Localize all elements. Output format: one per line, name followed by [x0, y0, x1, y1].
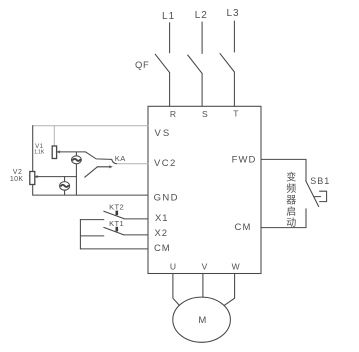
wire CM rail vertical — [79, 220, 81, 249]
wire X1 — [124, 218, 148, 220]
pushbutton SB1 stem — [314, 196, 321, 198]
svg-text:KT2: KT2 — [109, 203, 124, 212]
terminal label GND — [154, 193, 179, 204]
svg-text:FWD: FWD — [232, 155, 257, 166]
terminal label S — [202, 109, 208, 119]
meter circle B2 — [60, 182, 70, 191]
breaker QF pole 2 blade — [188, 55, 202, 73]
time relay contact KT1 delay mark — [116, 227, 119, 232]
breaker QF pole 1 blade — [155, 54, 169, 72]
svg-text:VS: VS — [155, 128, 172, 139]
svg-text:X1: X1 — [155, 213, 168, 224]
motor M — [173, 297, 231, 342]
wire V to motor — [202, 274, 204, 298]
potentiometer V2 label — [13, 169, 23, 176]
wire SB1 to CM — [261, 209, 306, 228]
terminal label VC2 — [154, 158, 177, 169]
time relay contact KT2 delay mark — [116, 211, 119, 216]
wire VS to left rail (faint) — [33, 125, 148, 127]
svg-text:U: U — [170, 262, 176, 272]
wire GND rail — [33, 194, 148, 196]
terminal label V — [202, 262, 208, 272]
terminal label FWD — [232, 155, 257, 166]
wire FWD to SB1 — [261, 159, 306, 180]
wire KA lower branch arrow — [97, 166, 110, 168]
svg-text:S: S — [202, 109, 208, 119]
pushbutton SB1 label — [310, 176, 330, 186]
svg-text:CM: CM — [154, 243, 171, 254]
svg-text:10K: 10K — [10, 176, 24, 183]
svg-text:KT1: KT1 — [109, 219, 124, 228]
time relay contact KT2 label — [109, 203, 124, 212]
wire KT1 left — [80, 235, 103, 237]
potentiometer V1 wiper arrow — [57, 150, 61, 153]
wire KA to VC2 (faint) — [117, 163, 148, 165]
terminal label T — [233, 109, 238, 119]
terminal label X2 — [155, 228, 168, 239]
wire QF pole2 to terminal S — [201, 73, 203, 106]
wire V1 wiper diagonal to KA — [86, 152, 112, 160]
meter circle B1 bottom wire to GND rail — [75, 164, 77, 195]
svg-text:CM: CM — [235, 222, 252, 233]
terminal label CM right — [235, 222, 252, 233]
svg-text:GND: GND — [154, 193, 179, 204]
inverter U1 (VFD) box — [148, 106, 261, 273]
time relay contact KT1 label — [109, 219, 124, 228]
relay contact KA blade — [112, 160, 117, 164]
node L2 — [195, 10, 208, 21]
breaker QF pole 3 blade — [220, 54, 234, 72]
svg-text:KA: KA — [115, 154, 126, 163]
wire L1 to QF — [169, 23, 171, 53]
relay contact KA label — [115, 154, 126, 163]
terminal label X1 — [155, 213, 168, 224]
wire L2 to QF — [201, 22, 203, 54]
svg-text:L1: L1 — [162, 11, 175, 22]
svg-text:V: V — [202, 262, 208, 272]
svg-text:X2: X2 — [155, 228, 168, 239]
terminal label CM left — [154, 243, 171, 254]
wire V1 wiper horizontal — [58, 151, 86, 153]
svg-text:动: 动 — [286, 217, 296, 229]
time relay contact KT2 blade — [104, 211, 124, 218]
wire KT2 left — [80, 219, 103, 221]
svg-text:QF: QF — [135, 60, 149, 71]
potentiometer V1 value 1.1K — [34, 150, 45, 156]
svg-text:M: M — [198, 315, 206, 326]
svg-text:W: W — [232, 262, 240, 272]
svg-text:启: 启 — [286, 205, 296, 218]
terminal label U — [170, 262, 176, 272]
svg-text:T: T — [233, 109, 238, 119]
time relay contact KT1 blade — [104, 227, 124, 235]
terminal label W — [232, 262, 240, 272]
svg-text:变: 变 — [286, 171, 296, 184]
meter circle B1 — [72, 156, 82, 164]
svg-text:1.1K: 1.1K — [34, 150, 45, 156]
svg-text:SB1: SB1 — [310, 176, 330, 186]
svg-text:L2: L2 — [195, 10, 208, 21]
wire V2 wiper to junction — [38, 176, 76, 178]
potentiometer V2 10K body — [30, 172, 35, 185]
wire W to motor — [224, 274, 234, 306]
wire V1 top to VS (faint) — [53, 126, 55, 146]
circuit breaker QF label — [135, 60, 149, 71]
wire left rail upper — [32, 126, 34, 172]
wire QF pole3 to terminal T — [233, 72, 235, 106]
wire CM left — [80, 248, 148, 250]
wire X2 — [124, 234, 148, 236]
node L3 — [226, 8, 239, 19]
pushbutton SB1 cap bracket — [320, 191, 327, 201]
terminal label VS — [155, 128, 172, 139]
wire L3 to QF — [233, 21, 235, 52]
annotation 变频器启动 — [286, 171, 296, 230]
meter circle B1 top stub — [75, 152, 77, 156]
terminal label R — [170, 109, 176, 119]
svg-text:V2: V2 — [13, 169, 23, 176]
wire QF pole1 to terminal R — [169, 73, 171, 107]
potentiometer V2 value 10K — [10, 176, 24, 183]
potentiometer V1 label — [35, 143, 44, 150]
wire KA lower branch diagonal to V2 wiper line — [85, 167, 98, 177]
svg-text:频: 频 — [286, 182, 296, 195]
svg-text:L3: L3 — [226, 8, 239, 19]
svg-text:器: 器 — [286, 194, 296, 206]
potentiometer V1 body — [52, 146, 56, 159]
wire U to motor — [173, 274, 180, 306]
meter circle B2 bottom stub — [64, 190, 66, 195]
pushbutton SB1 blade — [306, 181, 319, 207]
node L1 — [162, 11, 175, 22]
wire left rail lower — [32, 185, 34, 196]
meter circle B2 top stub — [64, 177, 66, 182]
potentiometer V2 wiper arrow — [35, 176, 39, 178]
svg-text:VC2: VC2 — [154, 158, 177, 169]
svg-text:R: R — [170, 109, 176, 119]
